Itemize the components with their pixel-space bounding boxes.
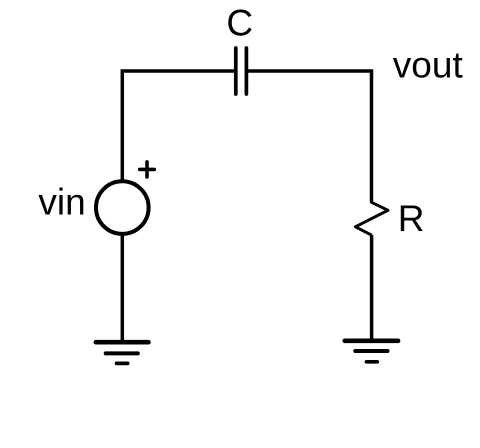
ground (right, under resistor R) [345,341,398,362]
resistor R (zigzag) [355,201,388,235]
wire: from resistor R bottom down to right ground [370,235,374,341]
label vin [38,182,85,223]
svg-text:vout: vout [393,44,464,85]
wire: node vout, from capacitor C right plate to top-right corner and down to resistor R top [248,71,372,203]
capacitor C (plates) [236,48,247,94]
wire: from capacitor C left plate to top-left corner and down to vin source + terminal [122,71,234,180]
svg-text:R: R [398,198,425,239]
ground (left, under vin source) [96,342,148,363]
svg-text:vin: vin [38,182,85,223]
voltage source vin (circle) [96,181,149,234]
label R [398,198,425,239]
plus polarity mark of vin source [140,162,155,177]
label C [226,3,253,44]
svg-text:C: C [226,3,253,44]
wire: from vin source - terminal down to left ground [121,235,125,343]
label vout [393,44,464,85]
